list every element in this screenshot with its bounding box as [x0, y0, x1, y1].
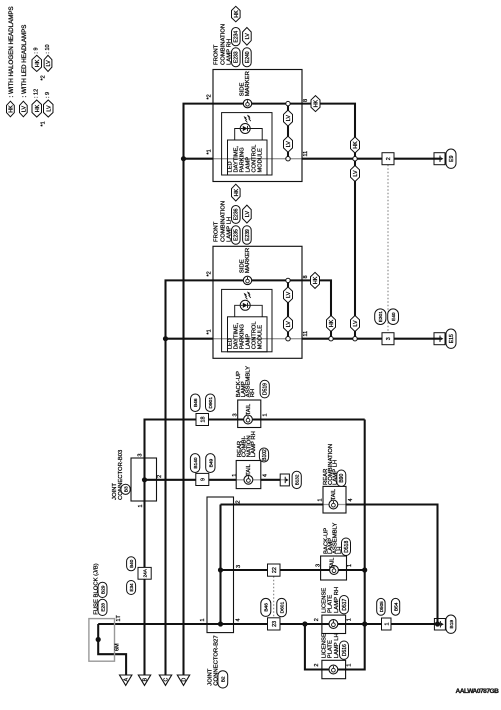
svg-text:E28: E28 — [100, 603, 106, 612]
svg-text:*2: *2 — [41, 75, 47, 80]
svg-text:E15: E15 — [449, 334, 455, 343]
svg-text:: WITH LED HEADLAMPS: : WITH LED HEADLAMPS — [21, 25, 28, 98]
svg-text:B46: B46 — [193, 398, 199, 407]
svg-text:23: 23 — [272, 621, 278, 627]
svg-text:*1: *1 — [207, 329, 213, 334]
svg-text:RH: RH — [250, 389, 256, 398]
svg-text:B46: B46 — [264, 603, 270, 612]
svg-text:HK: HK — [234, 10, 240, 18]
svg-text:: WITH HALOGEN HEADLAMPS: : WITH HALOGEN HEADLAMPS — [8, 6, 15, 97]
svg-text:B3: B3 — [123, 486, 129, 492]
svg-text:B102: B102 — [262, 449, 268, 461]
svg-text:LV: LV — [353, 170, 359, 177]
svg-text:FRONT: FRONT — [214, 221, 220, 242]
svg-text:LV: LV — [46, 60, 52, 67]
svg-text:1: 1 — [138, 504, 144, 507]
svg-text:18: 18 — [200, 417, 206, 423]
svg-text:*2: *2 — [207, 94, 213, 99]
svg-text:E236: E236 — [234, 208, 240, 220]
svg-text:1: 1 — [347, 618, 353, 621]
svg-text:HK: HK — [314, 99, 320, 107]
svg-text:B54: B54 — [393, 602, 399, 611]
svg-text:D505: D505 — [379, 601, 384, 612]
svg-text:LICENSE: LICENSE — [322, 633, 328, 658]
svg-text:LAMP RH: LAMP RH — [251, 431, 257, 457]
svg-text:LICENSE: LICENSE — [322, 588, 328, 613]
svg-text:E239: E239 — [245, 229, 251, 241]
svg-text:E240: E240 — [245, 51, 251, 63]
svg-text:3: 3 — [316, 564, 322, 567]
svg-text:LV: LV — [286, 115, 292, 122]
svg-text:B140: B140 — [193, 457, 199, 469]
svg-text:MODULE: MODULE — [258, 148, 264, 173]
svg-text:LV: LV — [286, 291, 292, 298]
svg-text:MODULE: MODULE — [258, 325, 264, 350]
svg-text:HK: HK — [35, 59, 41, 67]
svg-text:E301: E301 — [378, 311, 384, 323]
svg-text:B: B — [143, 677, 149, 681]
svg-text:MARKER: MARKER — [245, 71, 251, 96]
svg-text:E40: E40 — [391, 312, 397, 321]
svg-text:PLATE: PLATE — [328, 595, 334, 613]
svg-text:C: C — [164, 677, 170, 681]
svg-text:2: 2 — [314, 664, 320, 667]
svg-text:4: 4 — [236, 618, 242, 621]
svg-text:LV: LV — [286, 141, 292, 148]
svg-text:B90: B90 — [339, 474, 345, 483]
svg-text:24A: 24A — [143, 568, 148, 577]
svg-text:B132: B132 — [295, 474, 300, 485]
svg-text:22: 22 — [272, 567, 278, 573]
svg-text:2: 2 — [386, 157, 392, 160]
svg-text:HK: HK — [329, 319, 335, 327]
svg-text:2: 2 — [236, 500, 242, 503]
svg-text:TAIL: TAIL — [246, 404, 252, 415]
svg-text:1: 1 — [263, 413, 269, 416]
svg-text:B40: B40 — [129, 559, 134, 568]
svg-text:LV: LV — [245, 211, 251, 218]
svg-text:HK: HK — [353, 141, 359, 149]
svg-text:1: 1 — [232, 474, 238, 477]
svg-text:B29: B29 — [100, 585, 106, 594]
svg-text:LV: LV — [46, 105, 52, 112]
svg-text:4: 4 — [263, 474, 269, 477]
svg-text:1: 1 — [318, 498, 324, 501]
svg-text:LV: LV — [245, 33, 251, 40]
svg-text:D518: D518 — [344, 541, 350, 553]
svg-text:LV: LV — [286, 321, 292, 328]
svg-text:2: 2 — [314, 618, 320, 621]
svg-text:TAIL: TAIL — [331, 489, 337, 500]
svg-text:A: A — [124, 677, 130, 681]
svg-text:1: 1 — [347, 564, 353, 567]
svg-text:*2: *2 — [207, 271, 213, 276]
svg-text:D: D — [182, 677, 188, 681]
svg-text:B49: B49 — [208, 458, 214, 467]
svg-text:HK: HK — [35, 104, 41, 112]
svg-text:LV: LV — [353, 320, 359, 327]
svg-text:HK: HK — [313, 276, 319, 284]
svg-text:2: 2 — [157, 475, 163, 478]
svg-text:TAIL: TAIL — [330, 558, 336, 569]
svg-text:AALWA0787GB: AALWA0787GB — [456, 688, 500, 695]
svg-text:: 10: : 10 — [45, 44, 51, 53]
svg-text:D601: D601 — [280, 602, 286, 614]
svg-text:MARKER: MARKER — [245, 248, 251, 273]
svg-text:FRONT: FRONT — [214, 44, 220, 65]
svg-text:9: 9 — [200, 478, 206, 481]
svg-text:: 9: : 9 — [34, 47, 40, 53]
svg-text:8: 8 — [303, 99, 309, 102]
svg-text:E233: E233 — [234, 51, 240, 63]
svg-text:8: 8 — [303, 275, 309, 278]
svg-text:3: 3 — [236, 565, 242, 568]
svg-text:: 9: : 9 — [45, 92, 51, 98]
svg-text:*1: *1 — [41, 121, 47, 126]
svg-text:1T: 1T — [116, 614, 122, 621]
svg-text:11: 11 — [303, 151, 309, 157]
svg-text:D516: D516 — [342, 644, 348, 656]
svg-text:HK: HK — [8, 105, 14, 113]
svg-text:E235: E235 — [234, 229, 240, 241]
svg-text:: 12: : 12 — [34, 89, 40, 98]
svg-text:1: 1 — [200, 618, 206, 621]
svg-text:E9: E9 — [449, 155, 455, 161]
svg-text:*1: *1 — [207, 149, 213, 154]
svg-text:LV: LV — [21, 106, 27, 113]
svg-text:E234: E234 — [234, 31, 240, 43]
svg-text:B2: B2 — [221, 676, 227, 682]
svg-text:HK: HK — [234, 188, 240, 196]
svg-text:1: 1 — [347, 664, 353, 667]
svg-text:E34: E34 — [129, 583, 134, 592]
svg-text:D901: D901 — [208, 397, 214, 409]
svg-text:3: 3 — [232, 413, 238, 416]
svg-text:1: 1 — [384, 623, 390, 626]
svg-text:4: 4 — [348, 498, 354, 501]
svg-text:11: 11 — [303, 331, 309, 337]
svg-text:6M: 6M — [114, 643, 120, 651]
svg-text:B19: B19 — [449, 620, 455, 629]
svg-text:3: 3 — [386, 337, 392, 340]
svg-text:3: 3 — [138, 454, 144, 457]
svg-text:D517: D517 — [342, 599, 348, 611]
svg-text:D519: D519 — [263, 383, 269, 395]
svg-text:TAIL: TAIL — [246, 464, 252, 475]
svg-text:PLATE: PLATE — [328, 640, 334, 658]
